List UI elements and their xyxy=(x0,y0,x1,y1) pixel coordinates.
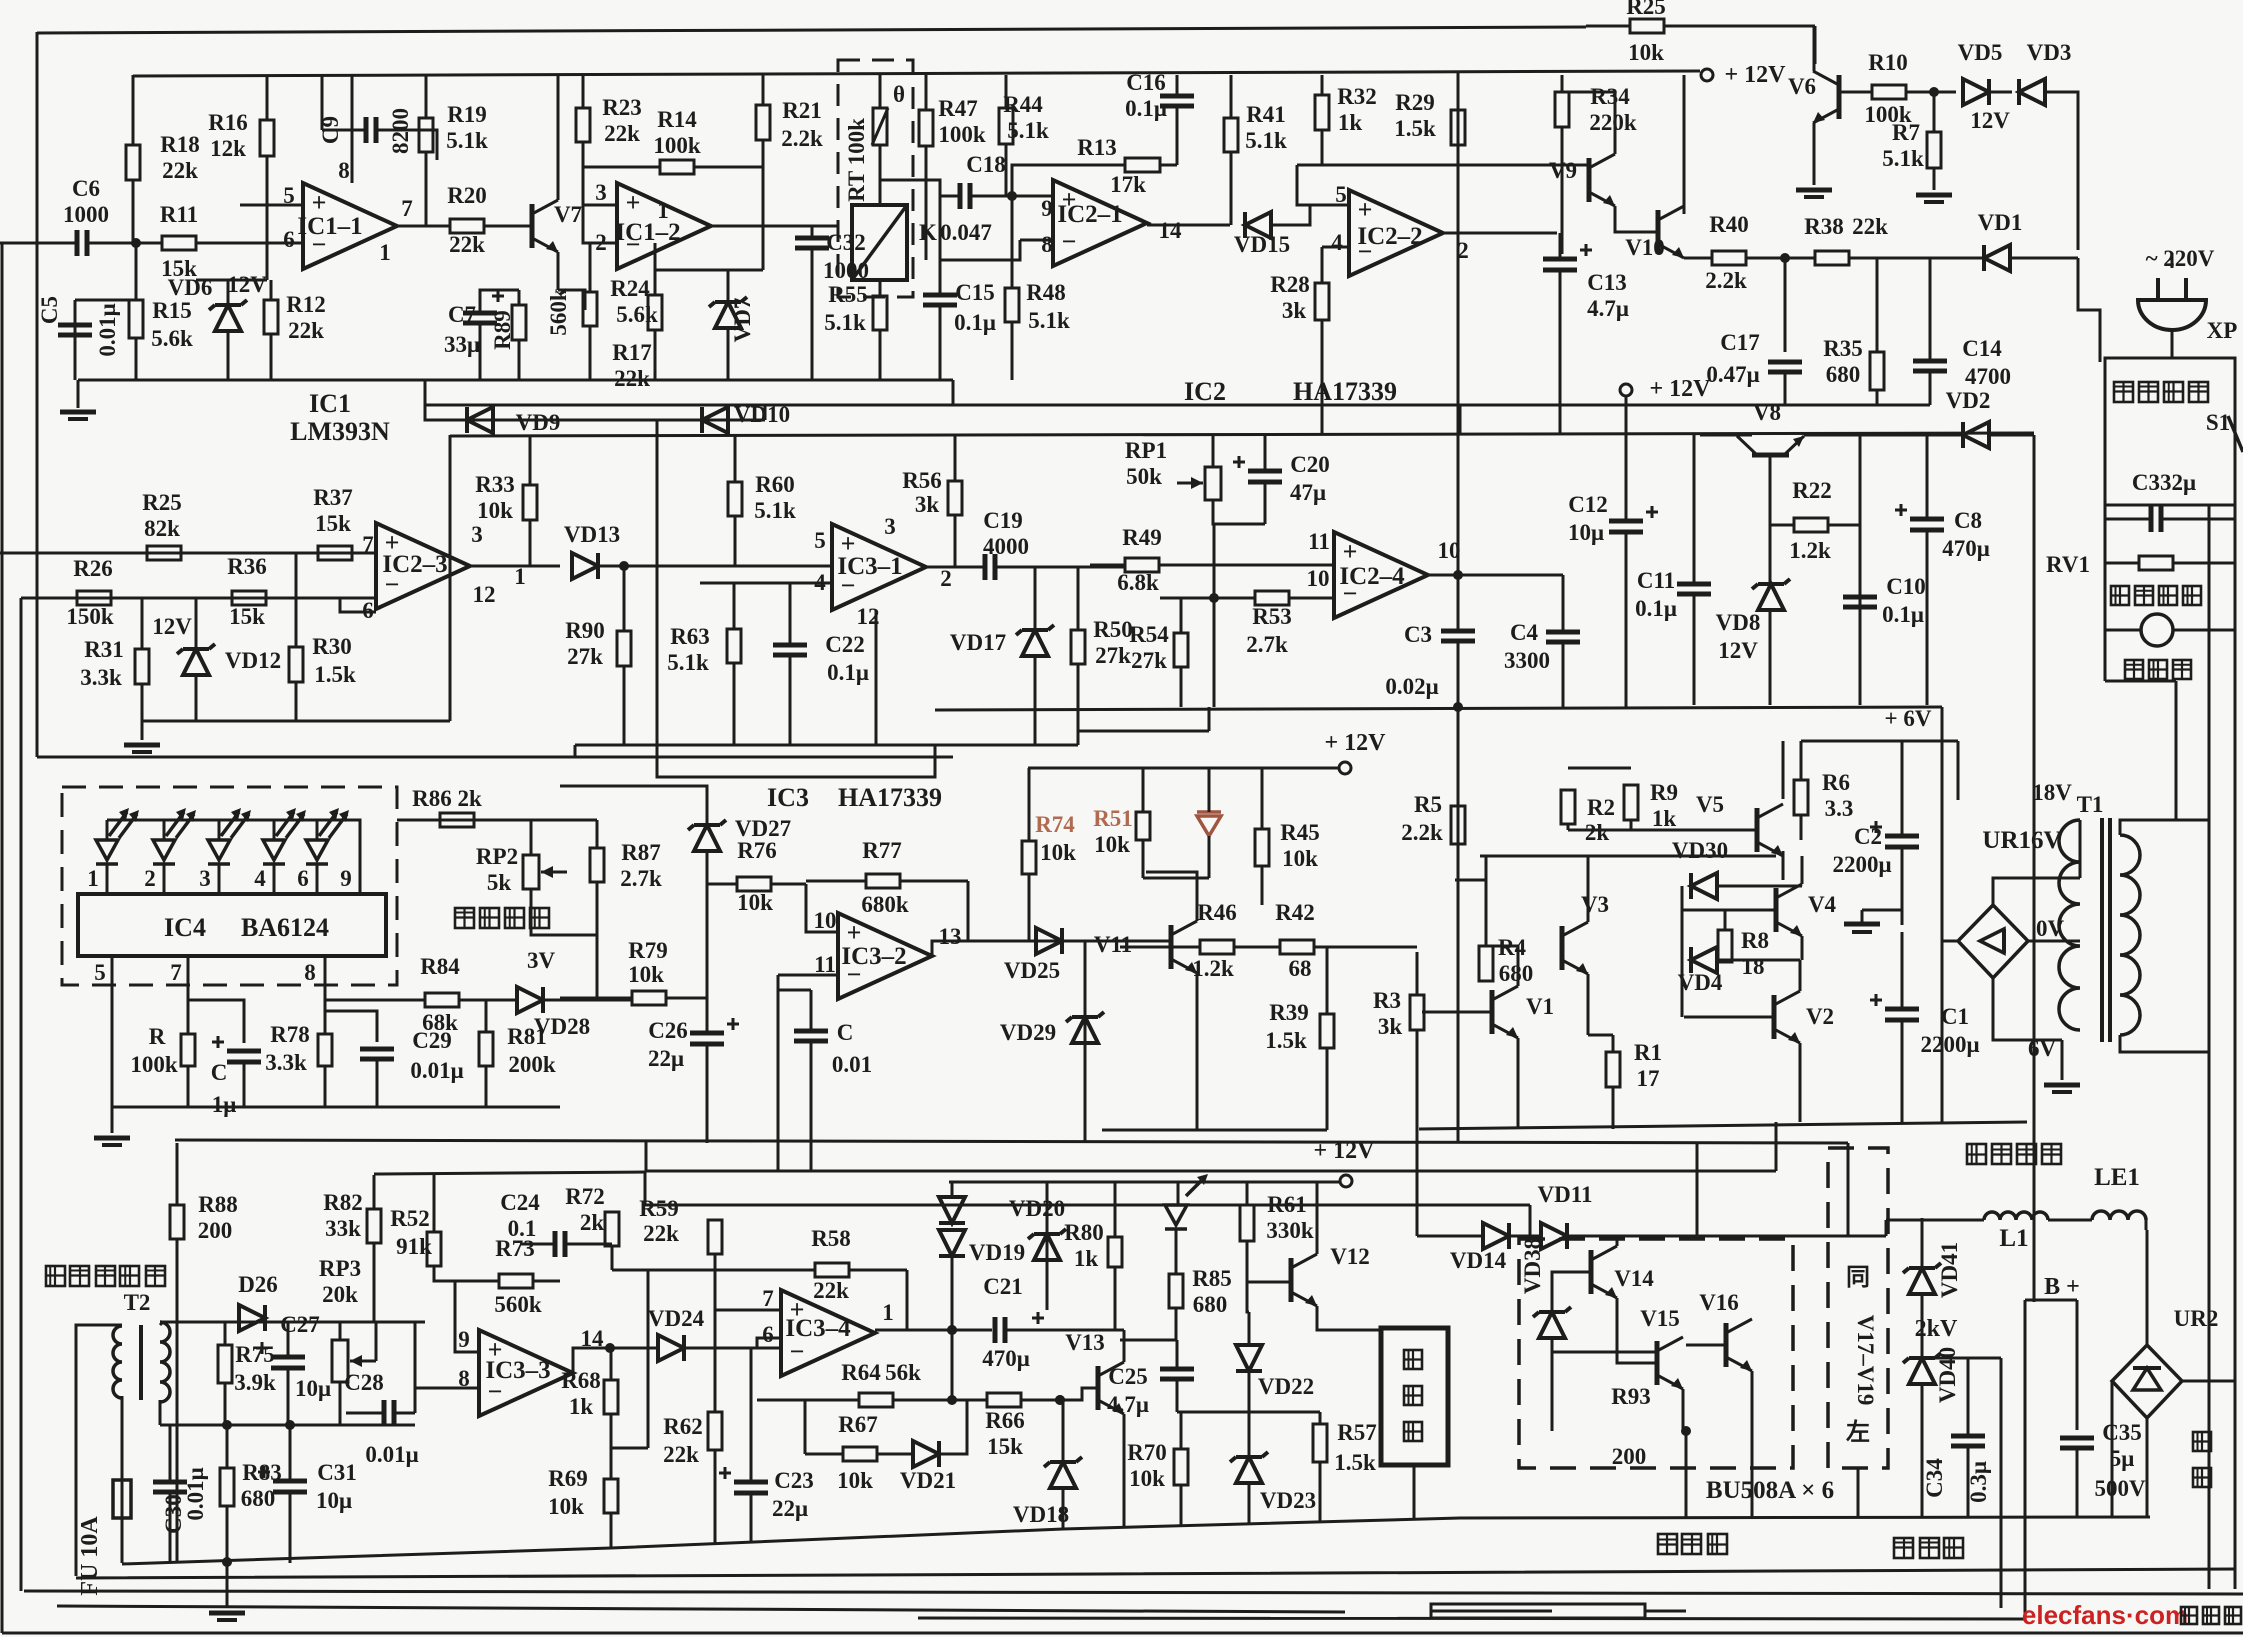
label IC3-4 name xyxy=(785,1315,851,1342)
svg-text:5.1k: 5.1k xyxy=(754,498,796,523)
svg-text:18V: 18V xyxy=(2032,780,2072,805)
diode VD18 xyxy=(1044,1457,1082,1488)
svg-text:6: 6 xyxy=(283,227,295,252)
svg-text:10k: 10k xyxy=(1282,846,1318,871)
svg-text:VD9: VD9 xyxy=(516,410,561,435)
label C17 value xyxy=(1706,362,1759,387)
wire B+ drop xyxy=(2024,1300,2027,1619)
wire +6V rail xyxy=(1801,740,1958,743)
svg-text:R13: R13 xyxy=(1077,135,1117,160)
label R16 name xyxy=(208,110,248,135)
wire V3 collector xyxy=(1588,856,1680,922)
wire V2 collector xyxy=(1799,960,1802,991)
resistor R51 box xyxy=(1136,768,1150,878)
label R35 name xyxy=(1823,336,1863,361)
svg-text:10μ: 10μ xyxy=(1568,520,1604,545)
resistor R93 xyxy=(1431,1604,1686,1618)
svg-text:100k: 100k xyxy=(130,1052,178,1077)
label IC2-3 pin7 xyxy=(362,532,374,557)
svg-text:27k: 27k xyxy=(1095,643,1131,668)
svg-text:1: 1 xyxy=(87,866,99,891)
svg-text:R78: R78 xyxy=(270,1022,310,1047)
svg-text:R22: R22 xyxy=(1792,478,1832,503)
svg-text:47μ: 47μ xyxy=(1290,480,1326,505)
wire x2078 down xyxy=(2078,258,2100,362)
resistor R53 xyxy=(1214,591,1334,605)
svg-text:470μ: 470μ xyxy=(982,1346,1030,1371)
svg-text:C5: C5 xyxy=(37,296,62,324)
svg-text:680: 680 xyxy=(1826,362,1861,387)
label C27 value xyxy=(295,1376,331,1401)
wire IC1-1 out xyxy=(397,225,450,228)
resistor R52 xyxy=(427,1175,441,1275)
svg-text:2: 2 xyxy=(940,566,952,591)
wire RP2 top xyxy=(530,820,533,855)
svg-text:27k: 27k xyxy=(567,644,603,669)
wire gnd drop xyxy=(141,721,144,740)
wire pin8 drop xyxy=(324,956,327,1034)
svg-text:1.5k: 1.5k xyxy=(1265,1028,1307,1053)
label R54 name xyxy=(1129,622,1169,647)
wire V8 base bus xyxy=(1700,434,1752,437)
wire gnd bus y721 xyxy=(142,720,450,723)
label VD28 3V xyxy=(527,948,556,973)
label C13 name xyxy=(1587,270,1627,295)
label R53 name xyxy=(1252,604,1292,629)
svg-text:R23: R23 xyxy=(602,95,642,120)
label C32 value xyxy=(823,258,869,283)
diode VD30 xyxy=(1691,873,1717,899)
wire x583 pin3 link xyxy=(582,167,585,205)
label IC4 pin 2 xyxy=(144,866,156,891)
resistor R42 xyxy=(1280,940,1417,954)
wire VD7 top xyxy=(727,270,730,302)
svg-text:RV1: RV1 xyxy=(2046,552,2090,577)
svg-text:1k: 1k xyxy=(569,1394,594,1419)
label R9 name xyxy=(1650,780,1678,805)
svg-text:470μ: 470μ xyxy=(1942,536,1990,561)
svg-text:0.01μ: 0.01μ xyxy=(365,1442,418,1467)
wire VD12 top xyxy=(195,598,198,649)
label R38 value xyxy=(1852,214,1888,239)
label 560k value xyxy=(546,288,571,336)
label IC4 pin7 xyxy=(170,960,182,985)
label VD9 name xyxy=(516,410,561,435)
svg-text:22k: 22k xyxy=(162,158,198,183)
wire coil right xyxy=(2145,1220,2148,1230)
svg-text:V17–V19: V17–V19 xyxy=(1853,1315,1878,1406)
op-amp IC3-2 xyxy=(838,913,932,999)
svg-text:C13: C13 xyxy=(1587,270,1627,295)
svg-text:10k: 10k xyxy=(1129,1466,1165,1491)
wire gnd stem xyxy=(226,1562,229,1608)
wire VD1 right xyxy=(2010,257,2078,260)
svg-text:5: 5 xyxy=(94,960,106,985)
svg-text:R55: R55 xyxy=(828,282,868,307)
wire V15 base xyxy=(1552,1351,1657,1354)
label R41 value xyxy=(1245,128,1287,153)
wire emitter to R1 xyxy=(1588,1034,1613,1037)
resistor R76 xyxy=(707,877,806,891)
label VD2 name xyxy=(1946,388,1991,413)
svg-text:R29: R29 xyxy=(1395,90,1435,115)
label IC4 pin5 xyxy=(94,960,106,985)
svg-text:C: C xyxy=(211,1060,228,1085)
resistor R90 xyxy=(617,631,631,745)
wire UR2 top xyxy=(2146,1230,2149,1345)
wire x78 ground drop xyxy=(77,380,80,408)
V17 label xyxy=(1846,1265,1878,1446)
label VD19 name xyxy=(969,1240,1025,1265)
svg-text:0.1μ: 0.1μ xyxy=(1635,596,1677,621)
label 2kV xyxy=(1915,1316,1958,1342)
wire bus y707 to bridge xyxy=(1941,707,1944,941)
wire C6 to R11 xyxy=(105,242,162,245)
label R19 value xyxy=(446,128,488,153)
label XP voltage xyxy=(2146,246,2215,271)
diode VDx xyxy=(1028,1229,1066,1260)
svg-text:R47: R47 xyxy=(938,96,978,121)
svg-text:6V: 6V xyxy=(2028,1036,2057,1061)
wire V14 collector xyxy=(1616,1236,1619,1246)
junction VD13 node xyxy=(619,561,629,571)
wire R40 line left xyxy=(1684,257,1712,260)
label C29 value xyxy=(410,1058,463,1083)
svg-text:0.01μ: 0.01μ xyxy=(95,303,120,356)
resistor R68 xyxy=(604,1348,618,1448)
label R4 name xyxy=(1498,935,1527,960)
resistor R41 xyxy=(1224,75,1238,225)
svg-text:R2: R2 xyxy=(1587,795,1615,820)
wire +12V row4 rail xyxy=(949,1181,1340,1184)
ground bottom xyxy=(209,1613,245,1620)
wire y731 link xyxy=(1078,730,1209,733)
label IC1-1 pin5 xyxy=(283,183,295,208)
svg-text:+ 12V: + 12V xyxy=(1649,376,1711,402)
svg-text:V16: V16 xyxy=(1699,1290,1739,1315)
svg-text:C31: C31 xyxy=(317,1460,357,1485)
wire VD24 out xyxy=(684,1347,781,1350)
wire IC1-2 out xyxy=(711,225,838,228)
wire bottom line 3 xyxy=(24,1591,2243,1594)
label R6 name xyxy=(1822,770,1850,795)
label V6 name xyxy=(1788,74,1816,99)
label C2 name xyxy=(1854,824,1882,849)
op-amp IC1-1 xyxy=(303,183,397,269)
resistor R10 xyxy=(1872,85,1955,99)
label C18 value xyxy=(940,220,992,245)
diode VD15 xyxy=(1245,212,1271,238)
label R15 name xyxy=(152,298,192,323)
svg-text:500V: 500V xyxy=(2094,1476,2146,1501)
svg-text:R70: R70 xyxy=(1127,1440,1167,1465)
svg-text:22k: 22k xyxy=(449,232,485,257)
svg-text:10k: 10k xyxy=(477,498,513,523)
label VD6 value xyxy=(227,272,267,297)
wire +12V c12 drop xyxy=(1625,396,1628,435)
svg-text:R24: R24 xyxy=(610,276,650,301)
label IC3-3 pin8 xyxy=(458,1366,470,1391)
svg-text:R39: R39 xyxy=(1269,1000,1309,1025)
svg-text:V9: V9 xyxy=(1549,158,1577,183)
svg-text:3.3: 3.3 xyxy=(1825,796,1854,821)
svg-text:VD41: VD41 xyxy=(1937,1242,1962,1298)
svg-text:10μ: 10μ xyxy=(295,1376,331,1401)
svg-text:R21: R21 xyxy=(782,98,822,123)
label R74 red xyxy=(1035,812,1075,837)
label R68 value xyxy=(569,1394,594,1419)
K block xyxy=(852,205,907,280)
label IC1-1 pin7 xyxy=(401,196,413,221)
resistor R39 xyxy=(1320,1014,1334,1130)
svg-text:10k: 10k xyxy=(1040,840,1076,865)
wire bus y1107 under IC4 xyxy=(112,1106,560,1109)
label R36 name xyxy=(227,554,267,579)
svg-text:IC2–3: IC2–3 xyxy=(382,551,447,578)
svg-text:VD5: VD5 xyxy=(1958,40,2003,65)
label VD11 name xyxy=(1538,1182,1593,1207)
switch S1 xyxy=(2228,416,2243,452)
svg-text:C332μ: C332μ xyxy=(2132,470,2196,495)
label C14 value xyxy=(1965,364,2011,389)
wire C5 top link xyxy=(75,299,136,302)
label C28 name xyxy=(344,1370,384,1395)
svg-text:17k: 17k xyxy=(1110,172,1146,197)
label IC1-1 pin8 xyxy=(338,158,350,183)
wire V9 to V10 xyxy=(1615,206,1658,232)
svg-text:UR2: UR2 xyxy=(2174,1306,2219,1331)
svg-text:11: 11 xyxy=(814,952,836,977)
svg-text:R62: R62 xyxy=(663,1414,703,1439)
label R84 name xyxy=(420,954,460,979)
label R21 value xyxy=(781,126,823,151)
winding T2 right xyxy=(160,1322,170,1402)
label C9 value xyxy=(388,108,413,154)
svg-text:VD17: VD17 xyxy=(950,630,1006,655)
wire V10 emitter xyxy=(1683,257,1686,260)
svg-text:1k: 1k xyxy=(1652,806,1677,831)
label +6V xyxy=(1885,706,1932,731)
wire RP3 top xyxy=(339,1322,342,1340)
label V9 name xyxy=(1549,158,1577,183)
svg-text:R75: R75 xyxy=(235,1342,275,1367)
svg-text:R85: R85 xyxy=(1192,1266,1232,1291)
label C27 name xyxy=(280,1312,320,1337)
diode VD20 xyxy=(939,1197,965,1223)
label R56 name xyxy=(902,468,942,493)
svg-text:4000: 4000 xyxy=(983,534,1029,559)
svg-text:V13: V13 xyxy=(1065,1330,1105,1355)
wire C tap xyxy=(778,989,811,992)
label IC2-1 pin8 xyxy=(1041,232,1053,257)
svg-text:VD25: VD25 xyxy=(1004,958,1060,983)
label R12 value xyxy=(288,318,324,343)
svg-text:R57: R57 xyxy=(1337,1420,1377,1445)
wire bus y707 IC24 bottom xyxy=(935,707,1942,710)
svg-text:VD30: VD30 xyxy=(1672,838,1728,863)
wire UR2 left xyxy=(2111,1381,2114,1517)
svg-text:2: 2 xyxy=(144,866,156,891)
diode VD11 xyxy=(1541,1223,1567,1249)
label Rx name xyxy=(149,1024,166,1049)
svg-text:C35: C35 xyxy=(2102,1420,2142,1445)
wire bottom of IC1 section xyxy=(78,379,953,382)
label R13 name xyxy=(1077,135,1117,160)
label IC4 pin8 xyxy=(304,960,316,985)
label R73 name xyxy=(495,1236,535,1261)
bridge UR2 xyxy=(2112,1345,2182,1418)
label R76 value xyxy=(737,890,773,915)
svg-text:22μ: 22μ xyxy=(772,1496,808,1521)
junction C17 node xyxy=(1780,253,1790,263)
label R85 name xyxy=(1192,1266,1232,1291)
svg-text:3300: 3300 xyxy=(1504,648,1550,673)
label C8 value xyxy=(1942,536,1990,561)
wire pin3 wire xyxy=(583,204,617,207)
label R64 name xyxy=(841,1360,881,1385)
label IC3-1 pin2 xyxy=(940,566,952,591)
inductor LE1 xyxy=(2092,1211,2146,1220)
svg-text:2.7k: 2.7k xyxy=(620,866,662,891)
svg-text:0.1μ: 0.1μ xyxy=(1125,96,1167,121)
label R22 value xyxy=(1789,538,1831,563)
label R32 value xyxy=(1338,110,1363,135)
wire y856 wire right xyxy=(1480,855,1776,858)
label C11 value xyxy=(1635,596,1677,621)
label IC3 name xyxy=(767,783,809,812)
resistor R56 xyxy=(948,435,962,567)
resistor R86 xyxy=(397,813,597,827)
svg-text:20k: 20k xyxy=(322,1282,358,1307)
wire R10 to VD5 xyxy=(1906,91,1956,94)
svg-text:XP: XP xyxy=(2207,318,2238,343)
junction C18 node xyxy=(1007,191,1017,201)
label buzzer label2 xyxy=(1404,1386,1422,1405)
svg-text:3: 3 xyxy=(199,866,211,891)
label R67 value xyxy=(837,1468,873,1493)
wire v1 base wire xyxy=(1422,1011,1492,1014)
LED D4 xyxy=(263,808,306,894)
label C7 name xyxy=(448,302,476,327)
wire right border xyxy=(2234,362,2237,1589)
resistor R15 xyxy=(129,300,143,380)
wire V12 collector up xyxy=(1316,1183,1319,1254)
wire V11 base xyxy=(1120,946,1171,949)
svg-text:−: − xyxy=(1062,227,1077,256)
svg-text:C: C xyxy=(837,1020,854,1045)
wire bottom line 2 xyxy=(76,1569,2235,1578)
label C35 name xyxy=(2102,1420,2142,1445)
junction R53 node xyxy=(1209,593,1219,603)
capacitor C17 xyxy=(1768,362,1802,405)
label IC3-2 pin11 xyxy=(814,952,836,977)
svg-text:IC2–1: IC2–1 xyxy=(1057,201,1122,228)
label IC2-3 pin12 xyxy=(473,582,496,607)
wire VD11 out xyxy=(1567,1235,1697,1238)
wire RP3 wiper xyxy=(375,1322,378,1361)
label varistor label xyxy=(2111,586,2201,605)
wire x645 step xyxy=(644,1171,647,1205)
label R18 value xyxy=(162,158,198,183)
label R3 value xyxy=(1378,1014,1403,1039)
label T2 name xyxy=(124,1290,151,1315)
wire V10 collector up xyxy=(1683,75,1686,214)
wire V8 cross xyxy=(1804,434,1962,437)
wire x1459 below xyxy=(1457,707,1460,1143)
svg-text:R28: R28 xyxy=(1270,272,1310,297)
resistor R47 xyxy=(919,75,933,260)
svg-text:VD12: VD12 xyxy=(225,648,281,673)
label C19 name xyxy=(983,508,1023,533)
wire left wire to C6 xyxy=(0,242,64,245)
resistor R6 xyxy=(1794,780,1808,840)
svg-text:4: 4 xyxy=(1331,230,1343,255)
transistor V10 xyxy=(1658,206,1684,258)
label R77 name xyxy=(862,838,902,863)
wire fuse down xyxy=(121,1518,124,1563)
label VD7 name xyxy=(730,298,755,343)
svg-text:1.5k: 1.5k xyxy=(1394,116,1436,141)
svg-text:22μ: 22μ xyxy=(648,1046,684,1071)
wire V1 collector up xyxy=(1486,946,1518,986)
svg-text:R8: R8 xyxy=(1741,928,1769,953)
LED D2 xyxy=(153,808,196,894)
capacitor C5 xyxy=(58,300,92,380)
diode VD23 xyxy=(1230,1452,1268,1483)
svg-text:3: 3 xyxy=(471,522,483,547)
label R28 name xyxy=(1270,272,1310,297)
wire VD17 stem xyxy=(1034,567,1037,630)
label C2 value xyxy=(1832,852,1891,877)
diode VD10 xyxy=(702,407,728,433)
op-amp IC2-4 xyxy=(1334,532,1428,618)
label R25 top name xyxy=(1626,0,1666,19)
label R7 value xyxy=(1882,146,1924,171)
wire LED stem xyxy=(1177,1182,1180,1205)
resistor R7 xyxy=(1927,132,1941,190)
svg-text:V15: V15 xyxy=(1640,1306,1680,1331)
label R30 value xyxy=(314,662,356,687)
svg-text:50k: 50k xyxy=(1126,464,1162,489)
wire VD40 down xyxy=(1921,1384,1924,1518)
junction bus dot xyxy=(1453,702,1463,712)
wire V3 emitter xyxy=(1587,974,1590,1035)
label R44 name xyxy=(1003,92,1043,117)
wire pin6 wire xyxy=(196,242,303,245)
label R60 value xyxy=(754,498,796,523)
svg-text:5.1k: 5.1k xyxy=(1028,308,1070,333)
wire V15 emitter drop xyxy=(1682,1389,1685,1431)
wire pin8 wire xyxy=(1020,239,1053,242)
svg-text:2.7k: 2.7k xyxy=(1246,632,1288,657)
wire x450 riser xyxy=(449,435,452,721)
label buzzer label xyxy=(1404,1350,1422,1369)
label C18 name xyxy=(966,152,1006,177)
svg-text:200: 200 xyxy=(198,1218,233,1243)
label C5 value xyxy=(95,303,120,356)
svg-text:200: 200 xyxy=(1612,1444,1647,1469)
label R18 name xyxy=(160,132,200,157)
label R52 name xyxy=(390,1206,430,1231)
svg-text:1.2k: 1.2k xyxy=(1789,538,1831,563)
label R87 value xyxy=(620,866,662,891)
diode VD5 xyxy=(1963,79,1989,105)
svg-text:LE1: LE1 xyxy=(2094,1164,2140,1191)
label S1 name xyxy=(2206,410,2230,435)
wire R64 left drop xyxy=(804,1400,807,1454)
wire x1458 mid xyxy=(1457,435,1460,575)
wire x1530 step xyxy=(1529,1205,1532,1236)
